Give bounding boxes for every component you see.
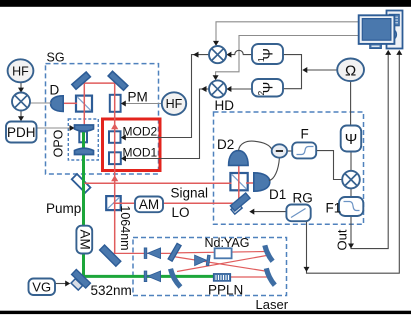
wire F1 to Out to computer bbox=[351, 53, 388, 249]
top black bar bbox=[0, 0, 411, 7]
HD minus node bbox=[272, 144, 287, 157]
mixer M2 bbox=[209, 80, 226, 97]
red LO beam horizontal bbox=[114, 202, 238, 204]
arrow into mixer M1 from psi1 bbox=[226, 52, 231, 58]
red laser cavity diagonal mirror1 to RB mirror bbox=[173, 257, 268, 272]
detector D2 dome bbox=[229, 151, 249, 166]
wire D1 to minus node bbox=[269, 158, 279, 180]
arrow into mixer M1 from computer bbox=[213, 41, 219, 46]
OPO input mirror (top) bbox=[75, 125, 94, 131]
wire Psi box to mixer M3 bbox=[350, 152, 352, 171]
arrow into MOD2 bbox=[121, 135, 126, 141]
svg-text:SG: SG bbox=[47, 51, 65, 65]
red seed beam vertical 1064nm bbox=[114, 83, 116, 253]
wire RG down around to computer bbox=[307, 53, 400, 274]
wire computer to mixer M1 bbox=[216, 22, 359, 44]
red LO beam vertical to D2 bbox=[238, 166, 240, 203]
svg-text:D2: D2 bbox=[217, 137, 234, 152]
svg-text:Ω: Ω bbox=[345, 62, 356, 79]
arrow mid-wire M2 output bbox=[201, 86, 207, 92]
svg-text:MOD1: MOD1 bbox=[123, 146, 158, 160]
svg-text:HF: HF bbox=[12, 64, 29, 78]
wire Omega to psi bus bbox=[304, 69, 337, 71]
red highlight box around MOD1/MOD2 bbox=[103, 119, 161, 171]
svg-text:2: 2 bbox=[256, 91, 266, 96]
phase box psi1 bbox=[252, 44, 283, 64]
wire HF right to PM bbox=[122, 103, 162, 105]
wire VG to attenuator bbox=[55, 283, 68, 285]
OPO output mirror (bottom) bbox=[75, 148, 94, 154]
beamsplitter cube BS3 (homodyne 50/50) bbox=[230, 173, 247, 190]
svg-text:HD: HD bbox=[215, 98, 235, 113]
wire Omega down to Psi box bbox=[350, 81, 352, 126]
wire mixer M1 to MOD2 bbox=[122, 55, 209, 138]
svg-text:LO: LO bbox=[172, 205, 190, 220]
SG dashed box bbox=[46, 64, 159, 174]
red beam SG left vertical into OPO bbox=[83, 83, 85, 127]
wire D2 to minus node bbox=[239, 141, 273, 150]
red arrowhead seed beam up inside MOD box bbox=[111, 123, 118, 129]
svg-text:1064nm: 1064nm bbox=[118, 205, 132, 250]
wire RG to piezo mirror bbox=[251, 211, 286, 213]
steering mirror SG top-right bbox=[108, 71, 128, 90]
arrow into piezo from RG bbox=[249, 209, 254, 215]
oscillator Omega bbox=[337, 59, 364, 82]
wire PDH to OPO mirror bbox=[37, 127, 73, 129]
svg-text:F: F bbox=[301, 127, 309, 142]
svg-text:PDH: PDH bbox=[7, 125, 36, 140]
phase modulator PM box bbox=[110, 95, 121, 112]
Nd:YAG gain crystal box bbox=[215, 248, 232, 258]
mixer M3 bbox=[342, 171, 360, 189]
wire mixer M3 to F1 bbox=[350, 188, 352, 197]
arrow up into computer from F1 line bbox=[385, 50, 391, 55]
oscillator HF right of SG bbox=[162, 92, 186, 115]
beamsplitter cube BS1 (SG) bbox=[76, 96, 92, 112]
svg-text:VG: VG bbox=[32, 280, 51, 295]
laser curved mirror left-bottom bbox=[171, 269, 181, 287]
optical isolator on 1064 output bbox=[144, 248, 160, 259]
svg-text:MOD2: MOD2 bbox=[123, 125, 158, 139]
wire mixer to PDH bbox=[20, 111, 22, 120]
detector D1 dome bbox=[254, 173, 270, 191]
Laser dashed box bbox=[133, 238, 287, 296]
svg-text:Nd:YAG: Nd:YAG bbox=[205, 236, 250, 250]
green pump beam horizontal from laser bbox=[82, 275, 213, 278]
piezo actuator stub on LO mirror bbox=[231, 203, 242, 214]
green pump beam vertical 532nm bbox=[82, 126, 85, 277]
PDH servo box bbox=[6, 122, 37, 143]
steering mirror SG top-left bbox=[72, 72, 91, 89]
red laser cavity diagonal LB mirror to RT mirror bbox=[177, 256, 267, 272]
svg-text:Laser: Laser bbox=[256, 297, 289, 312]
arrow Omega into bus bbox=[302, 67, 307, 73]
OPO nonlinear crystal bbox=[79, 132, 87, 143]
wire minus to F bbox=[287, 150, 292, 152]
oscillator HF top-left bbox=[8, 59, 34, 82]
red beam BS1 to detector D bbox=[63, 102, 78, 104]
svg-text:Signal: Signal bbox=[171, 186, 209, 201]
svg-text:AM: AM bbox=[78, 229, 93, 249]
arrow into MOD1 bbox=[121, 156, 126, 162]
modulator MOD1 square bbox=[109, 152, 121, 164]
red laser cavity beam bottom row PPLN to RB mirror bbox=[229, 276, 268, 278]
svg-text:AM: AM bbox=[139, 197, 159, 212]
computer monitor bbox=[359, 15, 397, 48]
wire psi1 to mixer M1 with hop bbox=[228, 50, 252, 54]
attenuator stub on green turning mirror bbox=[71, 279, 83, 290]
mixer (PDH) top-left bbox=[12, 93, 30, 111]
svg-text:Out: Out bbox=[334, 229, 349, 250]
svg-text:RG: RG bbox=[293, 191, 313, 206]
ramp generator RG box bbox=[286, 205, 310, 222]
red arrowhead seed beam up into SG bbox=[111, 175, 118, 181]
wire computer to mixer M2 bbox=[216, 36, 359, 79]
svg-text:OPO: OPO bbox=[51, 129, 65, 157]
arrow into mixer M2 from psi2 bbox=[226, 86, 231, 92]
svg-text:Ψ: Ψ bbox=[345, 131, 358, 148]
arrow into OPO from PDH bbox=[70, 125, 75, 131]
red signal through BS3 to D1 bbox=[246, 182, 254, 184]
1064nm steering mirror bottom bbox=[100, 245, 121, 266]
laser flat mirror (left top of bow-tie) bbox=[168, 243, 181, 261]
laser curved mirror right-bottom bbox=[266, 268, 275, 285]
arrow into PM bbox=[121, 101, 126, 107]
wire F box to mixer M3 bbox=[316, 151, 342, 180]
arrow VG to attenuator bbox=[65, 281, 70, 287]
intracavity optical diode (right-pointing) bbox=[195, 255, 211, 266]
computer tower bbox=[387, 11, 403, 49]
HD dashed box bbox=[214, 112, 364, 224]
arrow into mixer top-left bbox=[18, 88, 24, 93]
low-pass filter F1 box bbox=[339, 197, 363, 216]
mixer M1 bbox=[209, 46, 226, 63]
phase box psi2 bbox=[252, 79, 283, 97]
red signal beam to homodyne bbox=[84, 182, 231, 184]
svg-text:PPLN: PPLN bbox=[208, 283, 243, 298]
laser curved mirror right-top bbox=[265, 245, 273, 261]
svg-text:D1: D1 bbox=[269, 187, 286, 202]
AM box on LO path bbox=[135, 197, 163, 213]
arrow up into computer from RG line bbox=[396, 50, 402, 55]
arrow RG line down bbox=[304, 267, 310, 272]
dichroic mirror (pump/signal splitter) bbox=[72, 174, 91, 193]
wire HF to mixer bbox=[20, 82, 22, 91]
svg-text:PM: PM bbox=[128, 90, 148, 105]
PPLN crystal bbox=[214, 274, 231, 281]
optical isolator on 532 output bbox=[144, 271, 160, 282]
beamsplitter cube BS2 (seed/LO pickoff) bbox=[106, 196, 121, 210]
arrow Out down F1 bbox=[348, 244, 354, 249]
svg-text:Pump: Pump bbox=[46, 201, 81, 216]
svg-text:HF: HF bbox=[166, 97, 183, 111]
svg-text:1: 1 bbox=[256, 57, 266, 62]
svg-text:532nm: 532nm bbox=[91, 283, 132, 298]
red laser cavity beam top row bbox=[175, 252, 267, 253]
svg-text:F1: F1 bbox=[326, 201, 342, 216]
VG box bbox=[29, 279, 56, 296]
AM box on pump path (rotated) bbox=[76, 226, 92, 254]
red beam 1064 from laser to steering mirror bbox=[113, 252, 174, 254]
wire psi1 psi2 right bus bbox=[283, 55, 302, 89]
phase shifter Psi box bbox=[341, 126, 362, 152]
wire psi2 to mixer M2 bbox=[228, 88, 252, 90]
arrow into PDH bbox=[18, 116, 24, 121]
modulator MOD2 square bbox=[109, 131, 121, 143]
wire mixer M2 to MOD1 bbox=[123, 89, 210, 159]
piezo mirror (LO phase) bbox=[230, 193, 250, 211]
arrow mid-wire M1 output bbox=[193, 52, 199, 58]
wire mixer to detector D bbox=[30, 102, 51, 104]
bottom black bar bbox=[0, 311, 411, 314]
red beam SG top horizontal bbox=[84, 82, 115, 84]
svg-text:D: D bbox=[50, 83, 60, 98]
green turning mirror 532nm bbox=[72, 270, 91, 289]
OPO cavity dashed box bbox=[68, 119, 98, 160]
filter F box bbox=[292, 142, 316, 158]
detector D dome bbox=[51, 96, 64, 112]
arrow into mixer M2 from computer bbox=[213, 75, 219, 80]
